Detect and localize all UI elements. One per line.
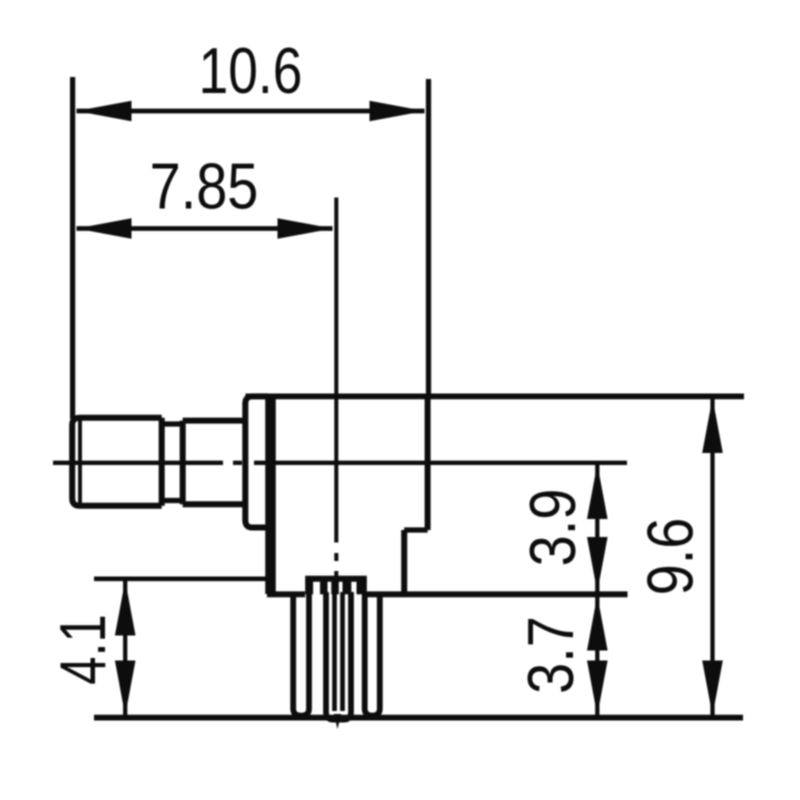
- horizontal centerline: [53, 461, 627, 465]
- svg-text:3.7: 3.7: [514, 616, 587, 694]
- dimension 9.6 label (rotated): [634, 518, 707, 596]
- extension line / vertical centerline (7.85): [334, 198, 338, 579]
- barrel section 2: [183, 421, 246, 505]
- extension line right (10.6): [426, 79, 431, 397]
- dimension line 3.7: [587, 596, 608, 716]
- body left edge: [265, 396, 276, 594]
- body right step: [404, 527, 427, 532]
- body right edge: [425, 396, 431, 530]
- body lower right edge: [401, 530, 407, 594]
- dimension line 10.6: [77, 101, 425, 122]
- barrel divider 2: [180, 421, 186, 505]
- dimension 7.85 label: [150, 150, 259, 223]
- body bottom reference line (3.9/3.7 middle): [267, 591, 628, 597]
- barrel divider 1: [159, 418, 165, 506]
- left PCB leg: [293, 592, 309, 716]
- dimension 3.7 label (rotated): [514, 616, 587, 694]
- dimension line 7.85: [77, 218, 333, 239]
- dimension 4.1 label (rotated): [47, 614, 119, 684]
- top reference line (body top, 9.6 upper): [246, 393, 745, 399]
- dimension line 9.6: [702, 398, 723, 716]
- leg attachment bars: [305, 581, 367, 595]
- svg-text:4.1: 4.1: [47, 614, 119, 684]
- svg-text:9.6: 9.6: [634, 518, 707, 596]
- center pin tip: [334, 714, 341, 729]
- svg-text:3.9: 3.9: [516, 489, 589, 567]
- barrel neck: [162, 424, 183, 501]
- barrel end cap inner line: [78, 418, 82, 506]
- barrel section 1 outline: [72, 418, 162, 506]
- dimension 10.6 label: [199, 34, 303, 107]
- bottom reference line (PCB plane): [94, 715, 743, 721]
- dimension 3.9 label (rotated): [516, 489, 589, 567]
- svg-text:10.6: 10.6: [199, 34, 303, 107]
- shoulder reference line (4.1 upper): [94, 576, 367, 581]
- svg-text:7.85: 7.85: [150, 150, 259, 223]
- extension line left (10.6): [70, 77, 75, 419]
- dimension line 4.1: [115, 581, 136, 716]
- dimension line 3.9: [587, 464, 608, 592]
- body flange outline: [245, 396, 268, 527]
- right PCB leg: [365, 592, 380, 716]
- middle insulator leg: [326, 592, 351, 720]
- center pin lines: [335, 592, 343, 711]
